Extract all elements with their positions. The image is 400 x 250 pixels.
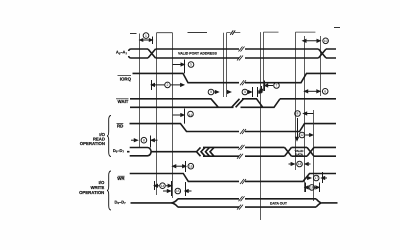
svg-text:16: 16 [189, 164, 193, 168]
svg-text:14: 14 [161, 184, 165, 188]
svg-text:VALID PORT ADDRESS: VALID PORT ADDRESS [178, 52, 218, 56]
A0-A7 crossover right [319, 49, 327, 58]
A0-A7 bus line top [129, 49, 336, 51]
svg-text:13: 13 [298, 162, 302, 166]
dimension 6 right [305, 90, 321, 93]
WAIT group1 callout [214, 91, 231, 94]
WAIT bottom line [130, 99, 280, 108]
svg-text:WR: WR [117, 176, 125, 181]
circled 17 [313, 175, 319, 181]
svg-text:D0–D7: D0–D7 [113, 148, 125, 154]
svg-text:15: 15 [176, 189, 180, 193]
svg-text:5: 5 [190, 63, 192, 67]
dimension 2 [151, 80, 184, 90]
svg-text:DATA: DATA [295, 152, 304, 156]
vertical x263.7 with cap [264, 32, 279, 91]
vertical reference line x172.6 [172, 33, 174, 198]
IORQ break [240, 80, 246, 85]
svg-text:12: 12 [300, 133, 304, 137]
circled 1 [143, 33, 149, 39]
svg-text:IORQ: IORQ [120, 76, 132, 81]
RD right callout 8 [304, 112, 314, 115]
A0-A7 crossover left [148, 49, 156, 58]
down arrow near valid data [296, 118, 299, 141]
dimension 1 arrow [140, 37, 153, 45]
svg-text:OPERATION: OPERATION [79, 190, 104, 195]
read bus tail [314, 147, 336, 156]
dimension 14 [154, 181, 171, 190]
WAIT group2 callout [248, 87, 262, 97]
circled 8 [141, 137, 147, 143]
circled 18 [309, 185, 315, 191]
svg-text:2: 2 [167, 83, 169, 87]
circled 9b [242, 89, 248, 95]
circled 11 [188, 111, 194, 117]
svg-text:A0–A7: A0–A7 [116, 50, 128, 56]
circled 8r [295, 111, 301, 117]
write brace [107, 171, 111, 210]
svg-text:D0–D7: D0–D7 [115, 200, 127, 206]
svg-text:9: 9 [244, 90, 246, 94]
svg-text:10: 10 [324, 39, 328, 43]
dimension 5 [173, 60, 185, 74]
svg-text:18: 18 [310, 186, 314, 190]
svg-text:11: 11 [189, 113, 193, 117]
leader 7 on IORQ low [260, 81, 273, 93]
circled 16 [188, 163, 194, 169]
vertical reference line x156.4 with top cap [157, 33, 173, 195]
D0-D7 write bus open [171, 199, 178, 207]
svg-text:9: 9 [210, 90, 212, 94]
circled 6 [322, 89, 328, 95]
svg-text:17: 17 [314, 176, 318, 180]
D0-D7 read bus lines [203, 147, 285, 156]
dimension 18 [305, 183, 320, 193]
circled 5 [188, 62, 194, 68]
write bus break [237, 196, 245, 209]
WR signal [130, 174, 336, 182]
circled 9a [208, 89, 214, 95]
dimension 17 [306, 172, 328, 183]
D0-D7 write bus close [316, 199, 322, 207]
read brace [107, 116, 111, 157]
RD break [240, 129, 246, 134]
svg-text:WAIT: WAIT [118, 99, 129, 104]
svg-text:8: 8 [297, 112, 299, 116]
WAIT top line [130, 99, 336, 108]
svg-text:DATA OUT: DATA OUT [270, 202, 288, 206]
D0-D7 write bus lines [178, 199, 316, 207]
dimension 15 [163, 182, 192, 196]
valid data crossover left [285, 147, 292, 156]
RD signal [130, 124, 337, 132]
svg-text:OPERATION: OPERATION [80, 141, 105, 146]
top right dash [334, 27, 340, 29]
svg-text:8: 8 [143, 138, 145, 142]
circled 13 [297, 161, 303, 167]
svg-text:7: 7 [276, 84, 278, 88]
valid data segment [292, 147, 308, 156]
read bus break [237, 145, 245, 159]
vertical x304.5 [304, 36, 306, 192]
circled 14 [160, 183, 166, 189]
svg-text:1: 1 [145, 34, 147, 38]
D0-D7 read float pill [127, 148, 151, 156]
D0-D7 read chevrons [197, 147, 215, 156]
vertical x295 with cap [296, 32, 316, 170]
dimension 11 [173, 109, 185, 124]
vertical reference line x139.5 [139, 34, 141, 148]
dimension 16 (WR setup) [173, 161, 186, 172]
top reference dash left [130, 33, 137, 35]
D0-D7 read centre line [151, 151, 196, 153]
top reference dash mid [188, 32, 208, 34]
A0-A7 bus line bottom [129, 56, 336, 58]
D0-D7 write single line [131, 202, 172, 204]
WR break [240, 179, 246, 184]
A0-A7 break slashes [237, 47, 245, 61]
dimension 8 [131, 136, 158, 148]
dimension 13 WR right [289, 163, 311, 166]
circled 12 with arrow [306, 110, 314, 201]
circled 10 [323, 38, 329, 44]
vertical reference line x260 [260, 32, 262, 220]
IORQ signal [133, 73, 337, 82]
svg-text:6: 6 [324, 90, 326, 94]
circled 2 [165, 82, 171, 88]
dimension 10 top right [303, 39, 320, 42]
svg-text:RD: RD [117, 124, 123, 129]
vertical reference pair x223.3 x226.6 with cap and break [223, 33, 225, 97]
write tail line [322, 202, 338, 204]
circled 15 [175, 188, 181, 194]
vertical x320.5 [320, 36, 322, 96]
circled 7 [274, 83, 280, 89]
valid data crossover right [307, 147, 314, 156]
